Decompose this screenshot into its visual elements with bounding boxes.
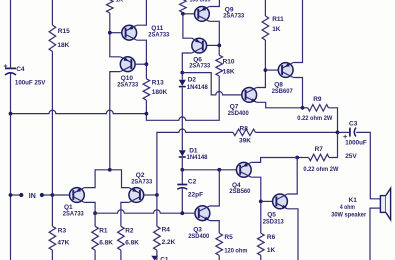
wire Q9 base: [183, 13, 195, 15]
svg-text:R10: R10: [223, 58, 235, 65]
wire Q7 collector up to Q8 base node: [257, 70, 266, 87]
svg-text:4 ohm: 4 ohm: [340, 204, 355, 211]
transistor Q4 2SB560: [229, 162, 251, 195]
transistor Q8 2SB607: [272, 63, 293, 95]
svg-text:2SA733: 2SA733: [148, 32, 169, 39]
svg-text:R15: R15: [58, 28, 70, 35]
node junction Q2 base/feedback/R4: [155, 193, 159, 197]
wire Q10 base: [135, 63, 146, 65]
svg-text:1K: 1K: [267, 247, 276, 254]
wire Q5 collector up to R7 node: [287, 158, 297, 195]
svg-text:2SA733: 2SA733: [223, 12, 244, 19]
svg-text:100uF 25V: 100uF 25V: [15, 79, 46, 86]
wire Q4 collector down to Q5 base node: [251, 177, 261, 201]
svg-text:R7: R7: [315, 146, 324, 153]
svg-text:1000uF: 1000uF: [345, 140, 367, 147]
svg-text:2SD313: 2SD313: [263, 219, 284, 226]
svg-text:2SD400: 2SD400: [228, 110, 249, 117]
resistor R12 100 ohm (cut at top) to Q9 base: [180, 0, 211, 14]
transistor Q9 2SA733: [195, 6, 245, 21]
svg-text:R11: R11: [272, 16, 284, 23]
node junction Q7 emitter/Q8 collector/R9: [301, 106, 305, 110]
wire bottom rail Q1 collector to Q3 base with hops: [95, 210, 195, 213]
svg-text:C3: C3: [349, 120, 358, 127]
wire Q11 collector to Q10 base node: [137, 40, 147, 64]
resistor R9 0.22 ohm 2W: [297, 96, 337, 132]
wire Q11 emitter to top edge: [137, 0, 147, 25]
svg-text:R3: R3: [58, 228, 67, 235]
svg-text:2SD400: 2SD400: [188, 233, 209, 240]
transistor Q11 2SA733: [122, 25, 170, 40]
svg-text:6.8K: 6.8K: [125, 240, 139, 247]
wire Q8 base: [265, 69, 278, 71]
wire left supply rail upper segment: [10, 0, 12, 68]
resistor R13 180K: [143, 64, 168, 113]
svg-text:R13: R13: [152, 79, 164, 86]
node junction left rail/IN stub: [9, 193, 13, 197]
resistor R14 (cut at top) line to Q11 base node: [107, 0, 125, 33]
terminal IN left: [19, 193, 23, 197]
transistor Q3 2SD400: [188, 206, 210, 240]
wire IN node stub left: [11, 194, 20, 196]
svg-text:R9: R9: [313, 96, 322, 103]
resistor R6 1K: [258, 201, 276, 260]
node junction C2/Q3 base rail: [180, 211, 184, 215]
wire speaker bottom terminal to bottom edge: [370, 208, 380, 260]
transistor Q5 2SD313: [263, 194, 288, 226]
capacitor C4: [3, 64, 46, 87]
wire Q1 emitter up to diff pair node: [84, 170, 110, 188]
wire Q8 emitter to top edge: [293, 0, 302, 63]
node junction D1/C2/Q4 base: [180, 168, 184, 172]
resistor R15 18K with line and R3 below: [49, 0, 70, 195]
svg-text:2SA733: 2SA733: [189, 62, 210, 69]
svg-text:120 ohm: 120 ohm: [224, 247, 247, 254]
node junction Q4 collector/Q5 base/R6: [259, 200, 263, 204]
node junction Q6 collector/D2/Q7 base branch: [180, 71, 184, 75]
svg-text:0.22 ohm 2W: 0.22 ohm 2W: [303, 166, 339, 173]
svg-text:25V: 25V: [345, 153, 357, 160]
node junction diff pair emitters: [108, 168, 112, 172]
wire left supply rail lower segment: [10, 73, 12, 260]
svg-text:22pF: 22pF: [188, 192, 203, 199]
node junction R12/Q9 base/Q6 emitter: [181, 12, 185, 16]
diode D1 1N4148: [179, 147, 208, 161]
transistor Q7 2SD400: [228, 88, 257, 118]
wire Q6 collector down to D2: [182, 53, 192, 73]
svg-text:R1: R1: [99, 228, 108, 235]
wire C2 bottom to Q3 base rail: [181, 188, 183, 213]
svg-text:30W speaker: 30W speaker: [331, 212, 366, 219]
svg-text:R2: R2: [125, 228, 134, 235]
transistor Q6 2SA733: [189, 38, 210, 69]
wire Q9 emitter to top edge: [209, 0, 219, 7]
svg-text:1N4148: 1N4148: [187, 154, 208, 161]
wire Q3 collector up to Q4 base node: [210, 170, 220, 206]
node junction Q11 collector/Q10 base/R13: [145, 62, 149, 66]
resistor R3 47K: [49, 195, 70, 260]
wire IN to Q1 base node: [44, 194, 52, 196]
transistor Q2 2SA733: [129, 172, 153, 203]
resistor R7 0.22 ohm 2W: [297, 132, 339, 173]
wire Q6 base: [207, 44, 220, 46]
svg-text:1K: 1K: [116, 0, 124, 4]
node junction R13/rail: [145, 112, 149, 116]
svg-text:1K: 1K: [272, 26, 281, 33]
wire Q6 emitter up to Q9 base node: [183, 14, 192, 38]
wire Q4 base rail from C2 node: [182, 169, 236, 171]
wire Q9 collector to Q6 base node: [209, 21, 219, 45]
svg-text:R8: R8: [240, 126, 249, 133]
svg-text:180K: 180K: [152, 89, 168, 96]
svg-text:C1: C1: [160, 256, 169, 260]
wire Q1 base: [52, 194, 73, 196]
svg-text:R4: R4: [162, 227, 171, 234]
node junction IN/R3/Q1 base: [51, 193, 55, 197]
capacitor C1 (cut at bottom edge): [151, 256, 169, 260]
svg-text:C4: C4: [16, 66, 25, 73]
wire Q4 emitter to R7 node: [251, 158, 297, 163]
wire Q7 emitter to R9 node: [257, 102, 303, 108]
node junction C4/rail: [9, 112, 13, 116]
wire Q3 emitter to R5: [210, 221, 219, 234]
svg-text:2SB560: 2SB560: [229, 188, 250, 195]
node junction R14/Q11 base/Q10 emitter: [108, 31, 112, 35]
svg-text:R5: R5: [224, 234, 233, 241]
svg-text:R6: R6: [267, 234, 276, 241]
capacitor C3 1000uF 25V: [338, 120, 367, 160]
svg-text:47K: 47K: [57, 240, 69, 247]
capacitor C2 22pF: [177, 170, 203, 199]
wire C3 to speaker top terminal: [356, 132, 380, 198]
svg-text:0.22 ohm 2W: 0.22 ohm 2W: [297, 115, 333, 122]
wire Q10 emitter up to Q11 base node: [110, 33, 121, 57]
svg-text:IN: IN: [29, 193, 36, 200]
svg-text:2SA733: 2SA733: [117, 81, 138, 88]
node junction Q9 collector/Q6 base/R10: [217, 44, 221, 48]
resistor R10 18K: [216, 45, 235, 76]
svg-text:18K: 18K: [57, 42, 69, 49]
wire D1 cathode to C2 node: [181, 158, 183, 170]
wire Q5 emitter to bottom edge: [287, 209, 298, 260]
svg-text:39K: 39K: [239, 138, 251, 145]
wire feedback rail from Q2 base node to output node with hop: [157, 129, 233, 195]
resistor R8 39K: [233, 126, 338, 145]
wire Q10 collector down to diff pair emitters: [110, 72, 121, 170]
wire tail-current rail from C4 node to R10 with hops: [11, 76, 220, 120]
svg-text:C2: C2: [188, 178, 197, 185]
svg-text:6.8K: 6.8K: [99, 240, 113, 247]
resistor R1 6.8K: [92, 213, 113, 260]
wire Q2 emitter from diff pair node: [110, 170, 129, 188]
svg-text:2SB607: 2SB607: [272, 88, 293, 95]
svg-text:1N4148: 1N4148: [187, 84, 208, 91]
node junction output R8/R9/R7/C3: [336, 131, 340, 135]
svg-text:2SA733: 2SA733: [131, 178, 152, 185]
transistor Q10 2SA733: [117, 57, 138, 89]
svg-text:100 ohm: 100 ohm: [190, 0, 211, 4]
wire Q1 collector down to bottom rail: [84, 202, 95, 213]
wire Q2 collector down to R2: [121, 202, 129, 226]
diode D2 1N4148: [179, 73, 208, 92]
wire D2 cathode down to D1: [181, 88, 183, 151]
node junction Q4 base/Q3 collector: [217, 168, 221, 172]
resistor R11 1K: [262, 0, 284, 70]
wire Q2 base: [144, 194, 157, 196]
speaker K1 4 ohm 30W: [331, 188, 390, 220]
resistor R2 6.8K: [118, 226, 140, 260]
svg-text:18K: 18K: [223, 69, 235, 76]
wire Q7 base branch from D2 node with hop over R10 line: [182, 73, 242, 95]
svg-text:D2: D2: [188, 76, 197, 83]
node junction R11/Q7 collector/Q8 base: [264, 68, 268, 72]
wire Q5 base: [261, 200, 273, 202]
svg-text:2SA733: 2SA733: [63, 210, 84, 217]
wire Q11 base: [110, 32, 122, 34]
resistor R5 120 ohm: [216, 233, 248, 260]
wire Q8 collector down to R9 node: [293, 78, 302, 108]
node junction Q1 collector/R1/bottom rail: [93, 211, 97, 215]
svg-text:2.2K: 2.2K: [162, 239, 176, 246]
terminal IN right: [40, 193, 44, 197]
resistor R4 2.2K: [154, 195, 176, 256]
transistor Q1 2SA733: [63, 188, 85, 218]
svg-text:+: +: [3, 64, 7, 71]
node junction R7/Q4 emitter/Q5 collector: [295, 156, 299, 160]
